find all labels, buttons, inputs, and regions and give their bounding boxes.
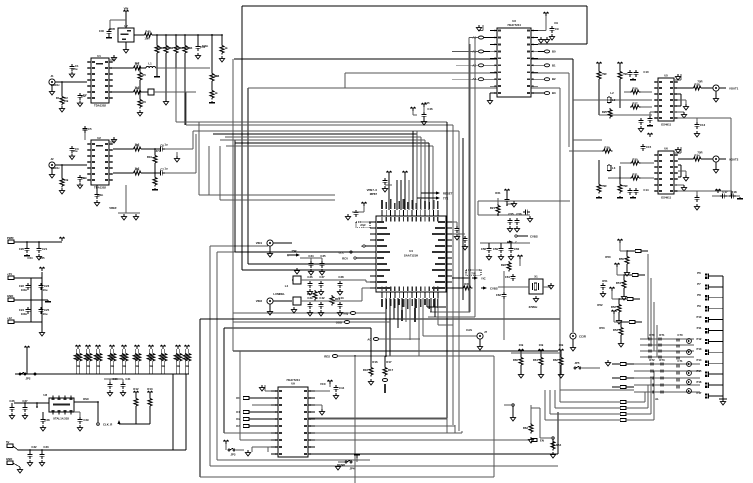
ground	[106, 36, 112, 38]
svg-text:C12: C12	[700, 123, 706, 127]
capacitor C8	[94, 185, 99, 206]
svg-text:75R: 75R	[622, 184, 627, 188]
U4 bottom pin 52	[437, 287, 439, 309]
wire	[156, 67, 210, 69]
ground	[163, 99, 168, 105]
wire	[416, 131, 418, 134]
ground	[507, 201, 517, 207]
wire bus	[452, 125, 454, 425]
svg-text:EN: EN	[540, 439, 544, 443]
U4 bottom pin 49	[424, 287, 426, 306]
svg-text:R70: R70	[649, 333, 655, 337]
svg-text:C71: C71	[677, 359, 683, 363]
connector P5	[6, 457, 20, 467]
wire	[647, 254, 649, 339]
wire bus	[224, 328, 371, 433]
wire bus	[248, 88, 560, 390]
node CVBS out	[515, 235, 538, 239]
capacitor C35	[300, 258, 325, 275]
svg-text:R50: R50	[605, 255, 611, 259]
wire	[185, 92, 187, 125]
capacitor C39	[307, 302, 312, 316]
wire	[478, 201, 570, 215]
ground	[477, 339, 482, 350]
svg-text:C44: C44	[339, 386, 345, 390]
svg-text:CLK_R: CLK_R	[103, 423, 112, 427]
svg-text:P7: P7	[697, 282, 701, 286]
wire	[192, 131, 194, 149]
connector P4	[6, 440, 18, 450]
svg-text:C27: C27	[22, 399, 28, 403]
power flag	[39, 267, 45, 271]
U4 right pin 34	[435, 263, 452, 265]
inductor L4	[285, 268, 308, 288]
jack J2 audio in R	[49, 157, 87, 168]
svg-text:R61: R61	[533, 358, 539, 362]
U4 top pin 11	[424, 201, 426, 222]
jumper JB5	[612, 363, 634, 366]
power flag	[609, 287, 619, 299]
svg-text:R50: R50	[619, 257, 625, 261]
wire	[423, 298, 477, 336]
wire	[461, 431, 463, 433]
svg-text:P6: P6	[697, 271, 701, 275]
connector P9	[705, 306, 723, 311]
svg-text:1k: 1k	[224, 46, 228, 50]
resistor R61	[533, 349, 544, 378]
svg-text:1k: 1k	[185, 364, 189, 368]
U4 bottom pin 45	[407, 287, 409, 310]
ground	[674, 185, 687, 191]
svg-text:B1: B1	[552, 63, 556, 67]
svg-text:P14: P14	[697, 358, 702, 362]
svg-text:U4: U4	[409, 249, 413, 253]
capacitor C51	[345, 202, 366, 220]
U4 bottom pin 51	[433, 287, 435, 308]
jack J5 video in 1	[256, 240, 292, 246]
svg-text:U1: U1	[97, 54, 101, 58]
power flag VCC	[59, 237, 65, 241]
wire	[184, 54, 186, 125]
wire	[427, 298, 446, 307]
svg-text:R63: R63	[523, 426, 529, 430]
ground	[121, 214, 138, 220]
svg-text:R21: R21	[495, 191, 501, 195]
wire	[195, 134, 197, 173]
svg-text:1k: 1k	[135, 364, 139, 368]
svg-text:R60: R60	[513, 358, 519, 362]
wire	[503, 299, 505, 340]
power flag	[647, 133, 653, 137]
connector P14	[705, 361, 723, 366]
wire	[511, 352, 561, 354]
jumper JB6	[612, 377, 634, 380]
connector P8	[705, 295, 723, 300]
node A2	[469, 63, 490, 67]
svg-text:XTAL14.318: XTAL14.318	[53, 417, 69, 421]
svg-text:R71: R71	[659, 333, 665, 337]
svg-text:75R: 75R	[697, 151, 702, 155]
svg-text:TTXQ: TTXQ	[341, 312, 349, 316]
wire bus	[233, 59, 350, 351]
wire	[456, 64, 478, 66]
ground	[39, 330, 44, 336]
svg-text:74HCT244: 74HCT244	[507, 23, 521, 27]
capacitor C52	[452, 222, 460, 240]
svg-text:C37: C37	[319, 275, 325, 279]
capacitor C54	[504, 197, 509, 206]
wire	[308, 418, 447, 433]
resistor R53	[613, 321, 624, 347]
svg-text:R16: R16	[363, 368, 369, 372]
wire bus	[446, 122, 448, 418]
svg-text:C39: C39	[307, 296, 313, 300]
svg-text:10k: 10k	[559, 343, 564, 347]
jumper JB11	[550, 390, 626, 415]
capacitor C33	[39, 449, 44, 466]
svg-text:GND: GND	[339, 463, 345, 467]
svg-text:R22: R22	[501, 263, 507, 267]
wire	[125, 185, 127, 213]
svg-text:75R: 75R	[166, 46, 171, 50]
resistor R40	[134, 30, 153, 38]
resistor R44	[183, 34, 193, 54]
capacitor C3	[69, 146, 79, 160]
svg-text:R26: R26	[632, 87, 638, 91]
node TTXQ	[341, 312, 386, 316]
wire	[308, 288, 370, 301]
U4 left pin 16	[370, 227, 387, 229]
capacitor C61	[505, 274, 516, 281]
U4 bottom pin 48	[420, 287, 422, 308]
svg-text:R40: R40	[145, 30, 151, 34]
wire	[385, 298, 387, 356]
capacitor C63	[600, 283, 605, 297]
resistor R4	[113, 87, 142, 95]
connector P11	[705, 328, 723, 333]
node SDA arrow	[421, 191, 453, 195]
junction	[36, 402, 38, 408]
jack J1 audio in L	[49, 74, 87, 85]
capacitor C11	[638, 118, 643, 132]
svg-text:JP5: JP5	[575, 361, 580, 365]
resistor R27	[630, 102, 652, 110]
jumper JB12	[545, 390, 626, 421]
ground	[267, 246, 272, 257]
svg-text:TDA1302: TDA1302	[94, 186, 106, 190]
U4 bottom pin 46	[411, 287, 413, 307]
wire bus	[538, 6, 587, 44]
U4 right pin 36	[438, 275, 452, 277]
svg-text:L2: L2	[612, 98, 616, 102]
resistor R15	[330, 295, 341, 305]
ground	[570, 339, 575, 351]
value box	[466, 270, 481, 276]
connector P7	[705, 284, 723, 289]
ground	[678, 100, 688, 110]
U4 right pin 38	[432, 287, 452, 289]
wire	[165, 54, 167, 99]
svg-text:R16: R16	[372, 360, 378, 364]
wire	[418, 298, 420, 356]
capacitor C50	[382, 171, 391, 210]
svg-text:1k2: 1k2	[135, 86, 140, 90]
wire	[175, 54, 177, 122]
LED L10	[687, 380, 692, 385]
svg-text:C18: C18	[731, 190, 737, 194]
capacitor C46	[421, 103, 427, 125]
wire rail	[18, 449, 186, 451]
resistor R16	[363, 328, 374, 385]
U4 right pin 30	[438, 239, 452, 241]
svg-text:27MHz: 27MHz	[529, 305, 538, 309]
svg-text:RES: RES	[324, 355, 330, 359]
svg-text:C43: C43	[338, 296, 344, 300]
svg-text:R6: R6	[142, 100, 146, 104]
capacitor C26	[9, 403, 14, 419]
wire	[156, 54, 158, 75]
svg-text:C33: C33	[43, 445, 49, 449]
svg-text:P10: P10	[697, 315, 702, 319]
svg-text:10u: 10u	[81, 176, 86, 180]
net label vertical	[401, 298, 403, 321]
switch S2	[335, 454, 359, 471]
U4 bottom pin 41	[390, 287, 392, 307]
svg-text:GND: GND	[7, 294, 13, 298]
value box	[356, 222, 370, 228]
node EN	[315, 439, 544, 443]
svg-text:C: C	[515, 241, 517, 245]
svg-text:VIN2: VIN2	[256, 299, 263, 303]
svg-text:VREF: VREF	[109, 206, 117, 210]
svg-text:1k2: 1k2	[135, 61, 140, 65]
jumper JB10	[555, 390, 626, 409]
svg-text:1k: 1k	[122, 364, 126, 368]
svg-text:C30: C30	[112, 377, 118, 381]
svg-text:1k: 1k	[76, 364, 80, 368]
capacitor C53	[452, 234, 468, 250]
connector P16	[705, 382, 723, 387]
svg-text:R31: R31	[632, 173, 638, 177]
svg-text:C17: C17	[722, 190, 728, 194]
wire	[454, 425, 456, 433]
wire	[412, 131, 414, 210]
inductor L2	[607, 96, 616, 104]
svg-text:10R: 10R	[144, 37, 149, 41]
svg-text:R52: R52	[597, 303, 603, 307]
capacitor C15	[640, 144, 651, 151]
svg-text:CINCH: CINCH	[51, 166, 60, 170]
svg-text:GS4911: GS4911	[661, 123, 672, 127]
U4 top pin 10	[420, 199, 422, 222]
wire	[424, 140, 426, 210]
connector P1	[7, 272, 42, 279]
svg-text:R13: R13	[147, 387, 153, 391]
svg-text:100n: 100n	[202, 44, 209, 48]
wire	[224, 432, 271, 434]
wire bus	[234, 59, 573, 332]
ground	[259, 385, 271, 391]
svg-text:75R: 75R	[601, 72, 606, 76]
wire	[432, 146, 434, 210]
svg-text:R5: R5	[142, 73, 146, 77]
svg-text:VOUT1: VOUT1	[729, 87, 739, 91]
resistor network RN1	[74, 345, 82, 374]
resistor network RN6	[133, 345, 141, 374]
U4 right pin 27	[438, 221, 452, 223]
U4 top pin 13	[433, 200, 435, 222]
svg-text:JP4: JP4	[350, 467, 355, 471]
wire	[678, 118, 731, 196]
power flag	[315, 380, 333, 391]
U4 bottom pin 50	[429, 287, 431, 310]
wire	[599, 114, 652, 116]
wire	[125, 14, 127, 28]
svg-text:P12: P12	[697, 337, 702, 341]
connector P15	[705, 372, 723, 377]
resistor R9	[113, 168, 142, 176]
svg-text:R52: R52	[611, 305, 617, 309]
wire bus	[233, 350, 558, 352]
svg-text:10k: 10k	[519, 343, 524, 347]
diode D6	[634, 362, 700, 365]
U4 top pin 14	[437, 201, 439, 222]
U4 top pin 7	[407, 202, 409, 222]
op-amp U1	[87, 54, 113, 108]
svg-text:MP87: MP87	[370, 192, 378, 196]
svg-text:R17: R17	[386, 360, 392, 364]
svg-text:RESET: RESET	[443, 192, 453, 196]
inductor L5	[273, 292, 308, 313]
wire	[428, 143, 430, 210]
resistor R6	[137, 81, 142, 116]
resistor R52	[611, 298, 622, 324]
ground	[109, 137, 117, 143]
node B0	[538, 49, 556, 53]
capacitor C20	[19, 241, 30, 256]
wire	[626, 392, 645, 402]
wire	[252, 404, 271, 406]
U4 top pin 9	[416, 203, 418, 222]
wire	[423, 356, 494, 477]
svg-text:C26: C26	[9, 399, 15, 403]
diode D7	[634, 369, 700, 372]
svg-text:R12: R12	[133, 387, 139, 391]
svg-text:R10: R10	[147, 155, 153, 159]
U4 left pin 26	[370, 287, 390, 289]
svg-text:CCIR: CCIR	[579, 335, 586, 339]
connector P3	[7, 316, 42, 323]
resistor R22	[501, 261, 511, 271]
diode D8	[634, 376, 700, 379]
capacitor C36	[307, 281, 312, 295]
svg-text:C29: C29	[83, 418, 89, 422]
resistor network RN9	[174, 345, 182, 374]
jack J7	[466, 328, 487, 339]
diode D5	[640, 355, 694, 358]
resistor R14	[307, 290, 317, 300]
svg-text:100n: 100n	[21, 288, 28, 292]
power flag	[504, 189, 510, 197]
svg-text:R17: R17	[388, 368, 394, 372]
capacitor C4	[77, 175, 87, 189]
capacitor C10	[627, 70, 638, 80]
jumper JB2	[624, 274, 645, 277]
resistor R46	[210, 34, 220, 82]
node arrow CVBS	[452, 276, 486, 280]
resistor R7	[59, 164, 64, 194]
wire	[408, 180, 410, 210]
wire	[434, 298, 436, 317]
video driver U6	[654, 147, 678, 200]
node B3	[538, 91, 556, 95]
switch S1	[223, 440, 250, 457]
resistor R29	[569, 140, 612, 153]
svg-text:P17: P17	[697, 391, 702, 395]
inductor L3	[607, 164, 616, 172]
U4 left pin 18	[370, 239, 384, 241]
node arrow	[507, 240, 517, 244]
connector P12	[705, 339, 723, 344]
node ODD	[336, 321, 390, 325]
node A3	[469, 77, 490, 81]
capacitor C7	[142, 168, 164, 176]
wire bus	[462, 138, 464, 300]
svg-text:1k: 1k	[86, 364, 90, 368]
wire bus	[225, 136, 421, 138]
svg-text:U2: U2	[97, 136, 101, 140]
capacitor C27	[22, 402, 27, 419]
LED L9	[687, 371, 692, 376]
svg-text:U5: U5	[664, 74, 668, 78]
svg-text:C55: C55	[508, 212, 514, 216]
resistor R28	[678, 83, 702, 91]
svg-text:C42: C42	[319, 296, 325, 300]
jumper JB7	[612, 386, 634, 389]
svg-text:Y/C: Y/C	[481, 277, 486, 281]
LED L6	[687, 339, 692, 344]
op-amp U2	[87, 136, 113, 190]
svg-text:C46: C46	[427, 107, 433, 111]
svg-text:C59: C59	[493, 247, 499, 251]
resistor R33	[617, 166, 623, 198]
ground	[487, 93, 492, 104]
wire loop	[678, 165, 681, 177]
power flag	[614, 263, 624, 275]
U4 right pin 28	[435, 227, 452, 229]
svg-text:TTX: TTX	[443, 197, 448, 201]
ground	[267, 304, 272, 315]
U4 left pin 15	[370, 221, 384, 223]
resistor R25	[602, 108, 612, 118]
svg-text:GS4911: GS4911	[661, 196, 672, 200]
svg-text:10u: 10u	[43, 288, 48, 292]
diode D3	[640, 343, 694, 346]
resistor R23	[597, 70, 601, 115]
wire	[308, 280, 370, 282]
resistor R60	[513, 349, 524, 378]
ground	[315, 405, 325, 415]
svg-text:+12: +12	[7, 316, 12, 320]
svg-text:100n: 100n	[97, 193, 104, 197]
capacitor C28	[40, 412, 45, 431]
net label vertical	[414, 298, 416, 322]
resistor R1	[56, 81, 65, 112]
node D3	[236, 424, 271, 428]
wire	[240, 439, 271, 441]
capacitor C42	[318, 302, 323, 316]
ground	[538, 37, 549, 43]
